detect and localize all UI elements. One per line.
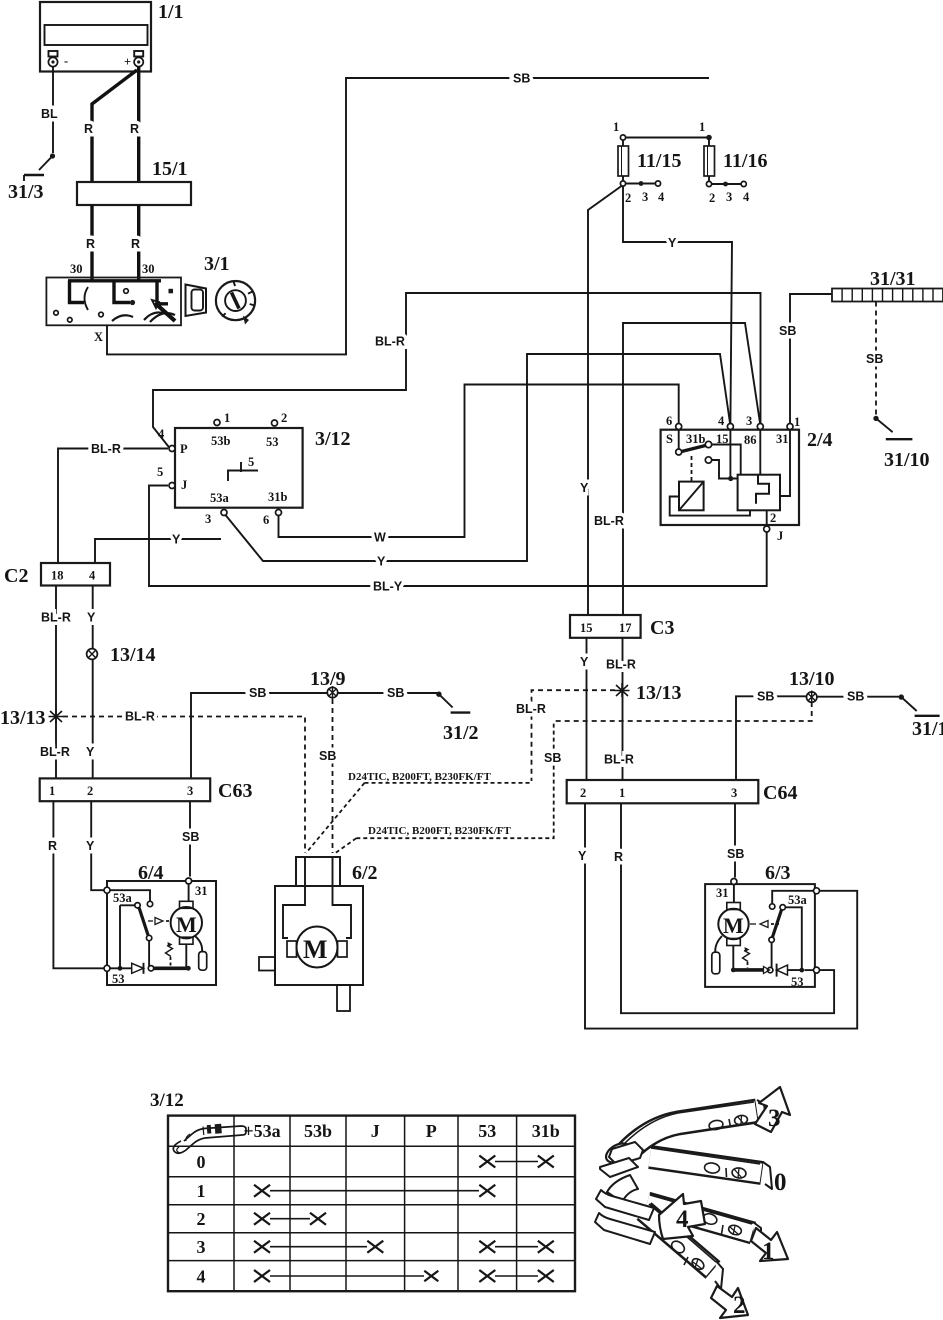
svg-text:P: P [426,1121,437,1141]
svg-text:1: 1 [613,120,619,134]
svg-text:53a: 53a [210,491,230,505]
svg-text:X: X [94,330,103,344]
svg-text:53: 53 [112,972,125,986]
stalk arm position 3 [603,1100,767,1166]
relay 2/4 [661,414,833,543]
svg-text:3: 3 [726,190,732,204]
wire Y C2 pin 4 to 3/12 pin 53a [95,533,221,564]
svg-text:0: 0 [774,1169,787,1196]
wire SB C63 pin 3 to 13/9 and ground 31/2 [191,686,439,778]
svg-text:3: 3 [205,512,211,526]
wiper switch 3/12 [157,411,351,527]
wire Y C64 pin 2 to motor 6/3 pin 53a [578,803,857,1028]
svg-text:15/1: 15/1 [152,158,188,180]
wire SB dashed 13/9 to pump 6/2 [319,699,336,853]
svg-text:SB: SB [866,352,883,366]
stalk arm position 2 [644,1204,723,1289]
svg-text:BL-R: BL-R [375,335,405,349]
svg-text:SB: SB [847,690,864,704]
svg-text:SB: SB [727,847,744,861]
svg-text:3: 3 [768,1105,781,1132]
stalk graphic (wiper lever positions) [595,1087,790,1318]
lamp 13/14 [87,644,156,666]
wire SB C64 pin 3 to 13/10 and ground 31/1 [736,690,901,781]
wire SB dashed 13/10 to note box [554,702,812,721]
svg-text:SB: SB [319,749,336,763]
wire BL-Y 3/12 J to relay 2/4 pin J [149,486,767,594]
svg-text:3: 3 [187,784,193,798]
svg-text:SB: SB [757,690,774,704]
svg-text:31/10: 31/10 [884,449,930,471]
wire BL battery minus to ground [41,67,58,153]
ground 31/3 [8,153,55,203]
svg-text:Y: Y [377,555,386,569]
svg-text:SB: SB [779,324,796,338]
svg-text:53: 53 [266,435,279,449]
terminal strip 31/31 [832,268,943,302]
svg-text:2: 2 [709,191,715,205]
svg-text:SB: SB [387,686,404,700]
svg-text:J: J [371,1121,380,1141]
svg-text:R: R [130,122,139,136]
svg-text:J: J [777,529,783,543]
svg-text:13/14: 13/14 [110,644,156,666]
svg-text:BL-R: BL-R [40,745,70,759]
fuse box 15/1 [77,158,191,205]
svg-text:31: 31 [776,432,789,446]
svg-text:53: 53 [791,975,804,989]
svg-text:31: 31 [716,886,729,900]
svg-text:31b: 31b [686,432,706,446]
fuse 11/16 [699,120,767,205]
svg-text:1: 1 [224,411,230,425]
svg-text:30: 30 [142,262,155,276]
svg-text:R: R [48,839,57,853]
svg-text:53: 53 [478,1121,496,1141]
wire BL-R C2-18 via splice 13/13 to C63 pin 1 [40,586,71,779]
svg-text:3: 3 [642,190,648,204]
wire R fuse to ignition (left) [90,205,93,281]
svg-text:J: J [181,478,187,492]
wire R C63 pin 1 to motor 6/4 pin 53 [48,801,104,968]
svg-text:P: P [180,442,188,456]
svg-text:BL-R: BL-R [125,710,155,724]
ground 31/1 [899,694,943,740]
svg-text:5: 5 [157,465,163,479]
svg-text:1: 1 [619,786,625,800]
table 3/12 switch positions [150,1090,575,1291]
fuse 11/15 [613,120,709,205]
svg-text:13/9: 13/9 [310,668,346,690]
wire BL-R 3/12 P to relay 2/4 pin 86 [153,293,761,449]
svg-text:3: 3 [746,414,752,428]
svg-text:4: 4 [197,1267,206,1287]
connector C2 [4,563,110,587]
svg-text:4: 4 [658,190,665,204]
svg-text:BL-R: BL-R [606,658,636,672]
svg-text:Y: Y [580,655,589,669]
wiper motor 6/3 [705,862,819,989]
svg-text:15: 15 [580,621,593,635]
wiper motor 6/4 [104,862,216,986]
svg-text:13/10: 13/10 [789,668,835,690]
svg-text:2: 2 [580,786,586,800]
stalk arm position 1 [647,1195,761,1249]
svg-text:SB: SB [513,72,530,86]
connector C64 [567,780,798,804]
svg-text:30: 30 [70,262,83,276]
svg-text:6: 6 [263,513,269,527]
svg-text:3/12: 3/12 [150,1090,184,1111]
splice 13/10 [789,668,835,704]
svg-text:3: 3 [731,786,737,800]
svg-text:BL-R: BL-R [516,702,546,716]
connector C63 [40,778,253,802]
svg-text:1: 1 [49,784,55,798]
wire R C64 pin 1 to motor 6/3 pin 53 [614,803,834,1013]
svg-text:53a: 53a [113,891,133,905]
svg-text:53b: 53b [211,434,231,448]
svg-text:2: 2 [625,191,631,205]
svg-text:53a: 53a [788,893,808,907]
wire R fuse to ignition (right) [137,205,140,281]
svg-text:31/1: 31/1 [912,718,943,740]
svg-text:11/16: 11/16 [723,150,767,172]
svg-text:BL: BL [41,107,58,121]
svg-text:R: R [131,237,140,251]
svg-text:C3: C3 [650,617,674,639]
svg-text:2: 2 [733,1292,746,1319]
note box D24TIC (lower) [334,721,561,854]
svg-text:M: M [303,935,328,964]
svg-text:31b: 31b [532,1121,560,1141]
svg-text:6: 6 [666,414,672,428]
svg-text:+53a: +53a [243,1121,280,1141]
wire Y C2-4 via 13/14 to C63 pin 2 [86,586,96,779]
svg-text:13/13: 13/13 [636,682,682,704]
svg-text:M: M [723,913,744,938]
svg-text:2/4: 2/4 [807,429,833,451]
wire BL-R dashed 13/13 to D24TIC box [516,690,615,781]
svg-text:6/4: 6/4 [138,862,164,884]
splice 13/13 (right) [615,682,682,704]
svg-text:BL-R: BL-R [594,514,624,528]
wire R battery plus to fuse 15/1 (right) [137,67,140,182]
wire Y C63 pin 2 to motor 6/4 pin 53a [86,801,104,890]
wire Y 3/12 pin 53a to relay 2/4 pin 15 [226,354,731,569]
wire SB ignition X to fuses (top run) [107,72,709,355]
svg-text:6/2: 6/2 [352,862,378,884]
svg-text:3/1: 3/1 [204,253,230,275]
svg-text:4: 4 [158,427,165,441]
svg-text:BL-R: BL-R [91,442,121,456]
svg-text:18: 18 [51,569,64,583]
arrow 4 (left) [659,1194,705,1239]
svg-text:-: - [64,54,68,68]
wire SB C63 pin 3 to motor 6/4 pin 31 [182,801,199,876]
svg-text:17: 17 [619,621,632,635]
relay 2/4 contact box [738,475,780,511]
svg-text:BL-R: BL-R [604,753,634,767]
svg-text:M: M [176,912,197,937]
stalk pivot body [595,1142,655,1244]
svg-text:2: 2 [770,511,776,525]
svg-text:1: 1 [794,415,800,429]
svg-text:R: R [84,122,93,136]
washer pump 6/2 [259,857,378,1011]
svg-text:Y: Y [668,236,677,250]
arrow 2 (down) [711,1286,748,1318]
relay 2/4 pin 2 J [766,510,768,526]
svg-text:C2: C2 [4,565,28,587]
svg-text:3: 3 [197,1237,206,1257]
connector C3 [570,615,674,639]
svg-text:1: 1 [762,1238,775,1265]
arrow 3 (up) [755,1087,790,1132]
svg-text:6/3: 6/3 [765,862,791,884]
svg-text:1: 1 [197,1181,206,1201]
svg-text:D24TIC, B200FT, B230FK/FT: D24TIC, B200FT, B230FK/FT [348,771,491,783]
svg-text:4: 4 [676,1206,689,1233]
svg-text:SB: SB [544,751,561,765]
svg-text:Y: Y [87,611,96,625]
svg-text:W: W [374,531,386,545]
wire SB 31/31 to ground 31/10 (dashed) [866,302,883,417]
svg-text:4: 4 [718,414,725,428]
wire SB C64 pin 3 to motor 6/3 pin 31 [727,803,744,877]
ignition switch 3/1 [46,278,181,326]
wire BL-R C3 pin 17 to C64 pin 1 [604,638,636,780]
svg-text:SB: SB [182,830,199,844]
svg-text:3/12: 3/12 [315,428,351,450]
svg-text:1: 1 [699,120,705,134]
svg-text:5: 5 [248,455,254,469]
svg-text:4: 4 [743,190,750,204]
splice 13/13 (left) [0,707,64,729]
svg-text:31: 31 [195,884,208,898]
svg-text:D24TIC, B200FT, B230FK/FT: D24TIC, B200FT, B230FK/FT [368,825,511,837]
svg-text:R: R [614,850,623,864]
svg-text:Y: Y [172,533,181,547]
splice 13/9 [310,668,346,699]
svg-text:BL-Y: BL-Y [373,580,403,594]
arrow 1 (down-right) [751,1228,788,1261]
svg-text:+: + [124,55,131,69]
stalk arm position 0 [650,1148,772,1189]
svg-text:53b: 53b [304,1121,332,1141]
svg-text:SB: SB [249,686,266,700]
svg-text:13/13: 13/13 [0,707,46,729]
svg-text:S: S [666,432,673,446]
svg-text:4: 4 [89,569,96,583]
wire R battery plus to fuse 15/1 (left) [92,70,137,182]
battery 1/1 [40,1,184,72]
svg-text:31/31: 31/31 [870,268,916,290]
svg-text:2: 2 [197,1209,206,1229]
ignition key symbol 3/1 [186,253,256,325]
wire SB relay 2/4 pin 31 to 31/31 [779,294,832,423]
svg-text:Y: Y [578,849,587,863]
wire Y fuse 11/15 to relay 2/4 pin 15 [623,186,732,423]
stalk position labels [676,1105,787,1319]
svg-text:31/2: 31/2 [443,722,479,744]
svg-text:Y: Y [580,481,589,495]
relay 2/4 internal switch [678,430,680,449]
svg-text:2: 2 [281,411,287,425]
svg-text:2: 2 [87,784,93,798]
svg-text:R: R [86,237,95,251]
svg-text:C64: C64 [763,782,797,804]
svg-text:86: 86 [744,433,757,447]
svg-text:C63: C63 [218,780,252,802]
svg-text:BL-R: BL-R [41,611,71,625]
wire W 3/12 pin 31b to relay 2/4 pin S [279,385,679,545]
svg-text:0: 0 [197,1152,206,1172]
wire BL-R C2 pin 18 to 3/12 P [58,442,168,563]
ground 31/2 [436,692,478,745]
svg-text:11/15: 11/15 [637,150,681,172]
wire BL-R C3 pin 17 to relay 2/4 pin 86 [594,323,760,615]
relay 2/4 coil [679,482,704,511]
svg-text:1/1: 1/1 [158,1,184,23]
svg-text:Y: Y [86,839,95,853]
wire BL-R dashed 13/13 to pump 6/2 [63,710,305,854]
svg-text:31/3: 31/3 [8,181,44,203]
wire Y fuse 11/15 to C3 pin 15 [580,186,622,615]
wire Y C3 pin 15 to C64 pin 2 [580,638,589,780]
ground 31/10 [873,416,929,471]
svg-text:31b: 31b [268,490,288,504]
svg-text:Y: Y [86,745,95,759]
note box D24TIC (upper) [306,771,531,853]
